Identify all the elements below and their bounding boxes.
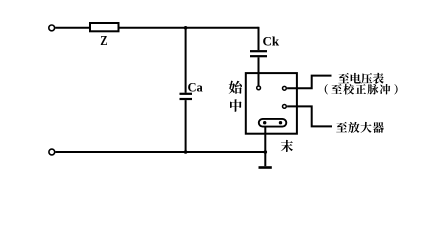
wire top rail: node A to Ck corner — [186, 27, 259, 29]
capacitor Ck (coupling capacitor) — [250, 50, 267, 57]
label 至电压表 — [338, 73, 383, 84]
wire top rail: J1 to Z — [55, 27, 90, 29]
terminal J1 (top input) — [49, 25, 55, 31]
junction node C (bottom of Ca) — [184, 150, 188, 154]
wire bottom rail — [55, 151, 265, 153]
capacitor Ca (load capacitance) — [180, 93, 193, 100]
terminal voltmeter tap — [283, 86, 287, 90]
measuring box U1 — [246, 73, 297, 134]
resistor Z (series impedance) — [90, 23, 119, 31]
label 中 — [230, 99, 242, 112]
wire socket to ground node — [264, 127, 266, 167]
wire to amplifier — [287, 106, 332, 126]
svg-text:Z: Z — [100, 33, 107, 48]
wire Ca lower lead — [185, 100, 187, 152]
ground terminal bar — [259, 166, 272, 169]
wire Ck branch: corner down to Ck — [258, 27, 260, 50]
terminal J2 (bottom input) — [49, 149, 55, 155]
label Ca — [188, 81, 204, 95]
terminal amplifier tap — [283, 105, 287, 109]
label 末 — [281, 140, 293, 152]
terminal 始 (start tap) — [257, 86, 261, 90]
wire to voltmeter — [287, 76, 331, 89]
svg-text:Ca: Ca — [188, 81, 204, 95]
junction node B (bottom right) — [264, 150, 268, 154]
svg-text:Ck: Ck — [263, 33, 280, 48]
socket 末 (end tap, stadium) — [259, 119, 287, 127]
label （至校正脉冲） — [325, 84, 398, 95]
wire Ck to terminal 始 — [258, 57, 260, 88]
label Ck — [263, 33, 280, 48]
label Z — [100, 33, 107, 48]
label 始 — [229, 81, 242, 94]
wire Ca upper lead — [185, 28, 187, 93]
wire top rail: Z to node A — [119, 27, 186, 29]
label 至放大器 — [336, 122, 384, 133]
junction node A (top of Ca) — [184, 26, 188, 30]
